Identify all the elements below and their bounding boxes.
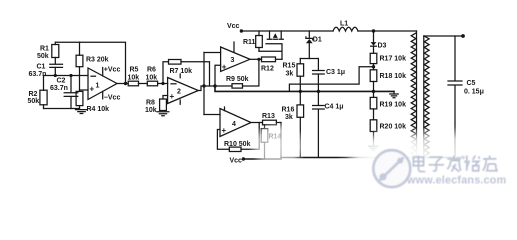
watermark text elecfans url (406, 175, 507, 188)
capacitor C1 (29, 64, 63, 78)
resistor R8 (145, 96, 168, 115)
svg-text:Vcc: Vcc (227, 23, 240, 30)
transistor Q1 pass MOSFET (259, 31, 283, 59)
svg-text:1: 1 (96, 83, 100, 90)
resistor R19 (370, 91, 406, 119)
svg-text:R9 50k: R9 50k (226, 76, 249, 83)
svg-text:R2: R2 (29, 91, 38, 98)
ground below R4 (76, 110, 88, 114)
svg-text:10k: 10k (146, 74, 158, 81)
capacitor C5 (448, 36, 484, 158)
svg-text:C5: C5 (467, 80, 476, 87)
svg-text:C3 1μ: C3 1μ (326, 69, 345, 76)
svg-text:R19 10k: R19 10k (380, 102, 407, 109)
resistor R20 (370, 120, 406, 146)
node R7 tap (161, 82, 164, 85)
resistor R13 (251, 113, 281, 125)
svg-text:+: + (170, 92, 175, 101)
resistor R1 (37, 42, 59, 64)
diode D1 zener (306, 31, 322, 59)
op-amp U1 (80, 68, 118, 100)
svg-text:50k: 50k (28, 98, 40, 105)
svg-text:63.7n: 63.7n (50, 85, 68, 92)
ground below R20 (369, 146, 378, 150)
svg-text:L1: L1 (340, 21, 348, 28)
svg-text:D1: D1 (313, 37, 322, 44)
wire op-amp 2 output to node (198, 84, 216, 90)
svg-text:R1: R1 (40, 46, 49, 53)
resistor R4 (76, 91, 109, 113)
watermark text dianzifashaoyou (413, 156, 498, 173)
watermark logo circle (373, 150, 410, 187)
node C3 mid rail (317, 90, 320, 93)
transformer T1 secondary (424, 36, 429, 156)
node bottom rail right end (461, 156, 465, 160)
svg-text:+Vcc: +Vcc (104, 67, 121, 74)
svg-text:R12: R12 (261, 66, 274, 73)
resistor R7 feedback (163, 60, 210, 87)
capacitor C3 (313, 59, 345, 92)
capacitor C4 (313, 91, 344, 157)
svg-text:Vcc: Vcc (230, 158, 243, 165)
resistor R14 (261, 125, 281, 159)
ground mid rail right (390, 91, 398, 97)
wire bottom left block (44, 108, 80, 110)
svg-text:3k: 3k (286, 71, 294, 78)
op-amp U3 (221, 42, 250, 72)
Vcc supply label top (227, 23, 243, 33)
resistor R9 feedback (215, 58, 261, 88)
node A wien junction (44, 74, 89, 77)
svg-text:10k: 10k (128, 74, 140, 81)
resistor R17 (370, 53, 406, 67)
resistor R6 (146, 67, 168, 86)
svg-text:+: + (222, 63, 227, 72)
svg-text:4: 4 (232, 121, 236, 128)
svg-text:R3 20k: R3 20k (86, 57, 109, 64)
svg-text:50k: 50k (37, 53, 49, 60)
svg-text:C4 1μ: C4 1μ (325, 104, 344, 111)
svg-text:3: 3 (231, 57, 235, 64)
capacitor C2 (50, 76, 78, 109)
svg-text:R7 10k: R7 10k (170, 68, 193, 75)
wire feedback sense line (289, 67, 373, 92)
svg-text:R11: R11 (243, 39, 256, 46)
svg-text:R15: R15 (283, 63, 296, 70)
resistor R18 (370, 67, 406, 92)
svg-text:R6: R6 (147, 67, 156, 74)
resistor R10 feedback (217, 123, 259, 152)
op-amp U4 (220, 107, 251, 137)
svg-text:C1: C1 (37, 64, 46, 71)
svg-text:−Vcc: −Vcc (104, 95, 121, 102)
svg-text:10k: 10k (145, 107, 157, 114)
svg-text:R10 50k: R10 50k (224, 141, 251, 148)
op-amp U2 (168, 74, 199, 104)
transformer T1 primary (411, 31, 416, 156)
svg-text:R5: R5 (130, 67, 139, 74)
svg-text:+: + (222, 126, 227, 135)
wire top supply rail (241, 30, 416, 32)
svg-text:D3: D3 (378, 43, 387, 50)
node feedback junction R17 R18 (372, 65, 375, 68)
resistor R12 (250, 57, 282, 73)
ground below R8 (157, 112, 169, 116)
wire op-amp 3 inverting input (204, 52, 221, 54)
Vcc supply label bottom (230, 157, 246, 164)
resistor R15 (283, 59, 304, 92)
wire D1 output bus (300, 58, 318, 60)
node R15 mid rail (299, 90, 302, 93)
diode D3 (371, 31, 387, 53)
wire distribution vertical (203, 53, 205, 115)
svg-text:3k: 3k (285, 114, 293, 121)
svg-text:www.elecfans.com: www.elecfans.com (406, 175, 506, 187)
wire mid rail (215, 86, 394, 91)
wire op-amp 3 noninverting input (215, 65, 221, 86)
node R18 mid rail (372, 90, 375, 93)
resistor R11 (243, 31, 262, 51)
svg-text:R4 10k: R4 10k (87, 106, 110, 113)
svg-text:0. 15μ: 0. 15μ (464, 89, 484, 96)
wire op-amp 4 inverting input (204, 114, 220, 116)
wire top feedback rail left block (56, 42, 126, 83)
resistor R2 (28, 76, 48, 109)
svg-text:R13: R13 (262, 113, 275, 120)
svg-text:R17 10k: R17 10k (380, 56, 407, 63)
wire R13 loop vertical (280, 123, 282, 158)
wire secondary top (424, 34, 465, 38)
resistor R3 (76, 42, 109, 91)
+Vcc pin op-amp 1 (103, 67, 121, 76)
svg-text:R16: R16 (282, 107, 295, 114)
wire op-amp 1 output (117, 82, 128, 85)
-Vcc pin op-amp 1 (103, 91, 121, 101)
svg-text:C2: C2 (57, 78, 66, 85)
inductor L1 (333, 21, 358, 32)
svg-text:2: 2 (177, 89, 181, 96)
svg-text:R18 10k: R18 10k (380, 73, 407, 80)
wire bottom rail (243, 158, 463, 160)
resistor R16 (282, 91, 304, 157)
resistor R5 (128, 67, 148, 86)
svg-text:R8: R8 (146, 100, 155, 107)
svg-text:+: + (90, 85, 95, 94)
node D3 top rail (372, 29, 375, 32)
